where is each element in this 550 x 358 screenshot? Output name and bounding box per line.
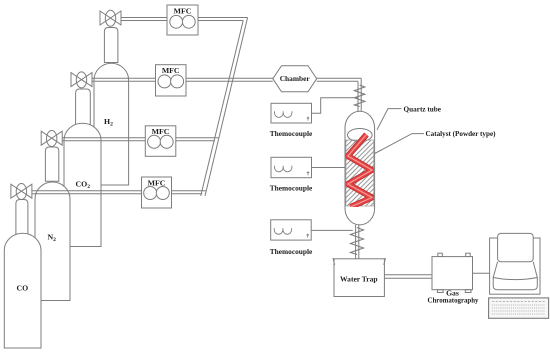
pipe reactor bottom to water trap <box>356 225 359 259</box>
svg-text:Catalyst (Powder type): Catalyst (Powder type) <box>426 129 497 138</box>
gas cylinder CO2 body <box>64 89 101 247</box>
catalyst hatched bed <box>346 140 374 206</box>
pipe chamber to reactor top <box>317 78 362 113</box>
wire thermocouple 2 to tube <box>312 167 346 169</box>
svg-text:Themocouple: Themocouple <box>270 129 313 138</box>
MFC2 box <box>156 65 187 96</box>
wire thermocouple 1 to pipe <box>312 98 358 114</box>
pipe MFC1 output to corner <box>198 18 248 21</box>
quartz tube inner mouth <box>348 129 373 142</box>
pipe diagonal manifold <box>201 18 248 197</box>
pipe MFC3 output to diagonal <box>176 138 219 141</box>
svg-text:MFC: MFC <box>174 6 192 15</box>
valve V3 (N2) <box>41 131 62 147</box>
pipe MFC2 output to chamber <box>186 78 273 81</box>
svg-text:Chromatography: Chromatography <box>428 295 479 304</box>
gas cylinder H2 body <box>94 28 129 186</box>
svg-text:CO: CO <box>17 284 29 293</box>
svg-text:Quartz tube: Quartz tube <box>404 104 442 113</box>
valve V1 (H2) <box>100 10 121 26</box>
svg-text:MFC: MFC <box>162 66 180 75</box>
wire GC to computer <box>473 272 490 274</box>
computer keyboard <box>489 298 549 318</box>
catalyst red spiral <box>348 135 372 208</box>
pipe water trap to GC <box>384 275 432 279</box>
water trap <box>333 258 385 297</box>
chamber hexagon <box>273 66 317 92</box>
valve V2 (CO2) <box>71 72 92 88</box>
MFC4 box <box>142 177 172 208</box>
pipe valve V3 to MFC3 <box>62 138 145 141</box>
svg-text:MFC: MFC <box>152 127 170 136</box>
svg-text:Themocouple: Themocouple <box>270 184 313 193</box>
leader line quartz tube label <box>377 109 402 130</box>
thermocouple box 2 <box>271 157 312 177</box>
MFC3 box <box>145 126 176 157</box>
computer monitor <box>490 233 540 294</box>
valve V4 (CO) <box>11 184 32 200</box>
svg-text:Water Trap: Water Trap <box>340 275 378 284</box>
spring heater bottom <box>351 228 364 255</box>
svg-text:Themocouple: Themocouple <box>270 247 313 256</box>
pipe valve V1 to MFC1 <box>121 18 167 21</box>
pipe MFC4 output to diagonal <box>172 191 206 194</box>
thermocouple box 3 <box>271 220 312 240</box>
pipe valve V2 to MFC2 <box>92 78 156 81</box>
svg-text:MFC: MFC <box>148 178 166 187</box>
svg-text:Chamber: Chamber <box>280 74 311 83</box>
quartz tube <box>345 111 375 225</box>
spring heater top <box>354 85 364 107</box>
leader line catalyst label <box>374 134 424 154</box>
wire thermocouple 3 to bottom spring <box>311 229 353 231</box>
thermocouple box 1 <box>271 103 312 123</box>
pipe valve V4 to MFC4 <box>32 191 142 194</box>
gas chromatograph box <box>432 253 473 292</box>
MFC1 box <box>167 5 198 35</box>
gas cylinder N2 body <box>35 147 70 301</box>
gas cylinder CO body <box>4 200 41 349</box>
